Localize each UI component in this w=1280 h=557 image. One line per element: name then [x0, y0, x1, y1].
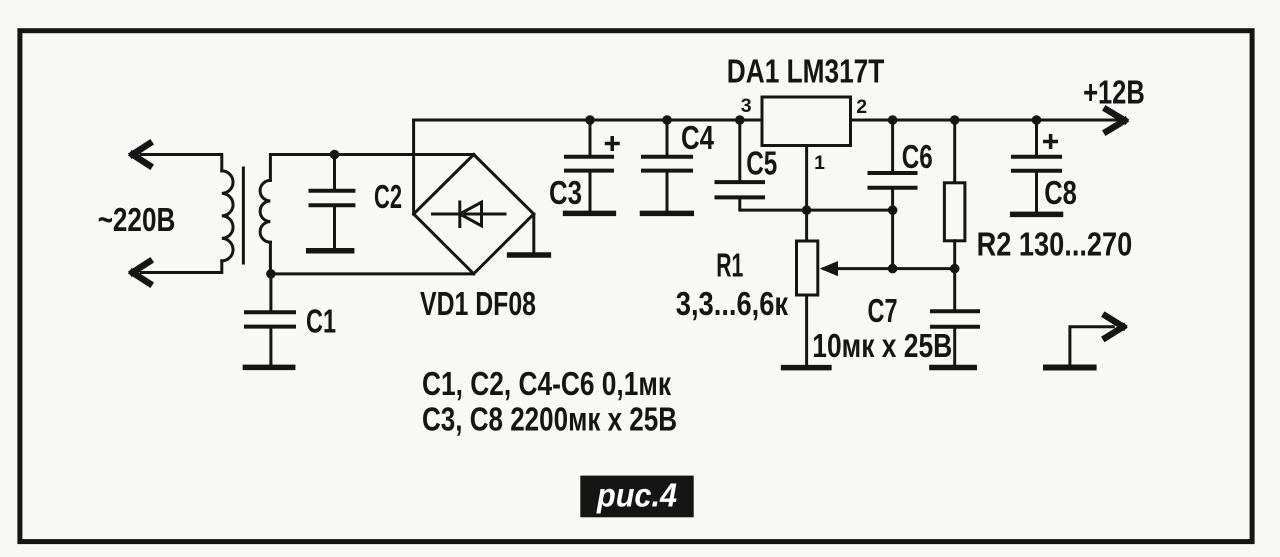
ground R1 [784, 365, 829, 371]
node C3 [585, 115, 595, 125]
svg-text:3: 3 [741, 95, 752, 117]
resistor R2 [953, 120, 956, 183]
wire secondary top lead [270, 155, 473, 181]
top rail [414, 119, 762, 122]
resistor R1 (trimmer) [805, 210, 808, 241]
regulator DA1 box [762, 97, 851, 146]
svg-text:С7: С7 [868, 292, 898, 329]
ground bridge [510, 252, 549, 258]
node pin1 [802, 205, 812, 215]
capacitor C3 [589, 120, 592, 155]
svg-text:С8: С8 [1044, 174, 1077, 211]
input arrow bottom [133, 262, 150, 284]
svg-text:С2: С2 [374, 178, 402, 215]
wire secondary bottom lead [269, 242, 272, 274]
output arrow +12B [1107, 110, 1125, 132]
ground common output [1046, 365, 1094, 371]
node wiper C6 [888, 264, 898, 274]
node wiper R2 [950, 264, 960, 274]
svg-text:10мк х 25В: 10мк х 25В [812, 327, 952, 364]
plus sign C3 [607, 138, 619, 150]
transformer core [242, 168, 245, 263]
svg-text:DA1 LM317T: DA1 LM317T [727, 53, 885, 90]
junction dots [266, 115, 1041, 279]
node C4 [662, 115, 672, 125]
capacitor C5 [738, 120, 741, 181]
capacitor C8 [1035, 120, 1038, 155]
svg-text:VD1 DF08: VD1 DF08 [420, 285, 536, 322]
ground C1 [245, 365, 292, 371]
diode inside VD1 [433, 213, 506, 216]
svg-text:R1: R1 [716, 246, 743, 283]
common output symbol [1070, 327, 1113, 365]
wire primary bottom lead [141, 261, 222, 273]
svg-text:С1, С2, С4-С6 0,1мк: С1, С2, С4-С6 0,1мк [422, 365, 671, 402]
svg-text:С1: С1 [306, 303, 336, 340]
svg-text:3,3...6,6к: 3,3...6,6к [676, 285, 789, 322]
figure caption box [580, 476, 693, 518]
ground C7 [932, 365, 974, 371]
svg-text:С5: С5 [746, 145, 777, 182]
ground C4 [643, 211, 692, 217]
node C5/pin3 [735, 115, 745, 125]
svg-text:С3, С8 2200мк х 25В: С3, С8 2200мк х 25В [422, 401, 677, 438]
capacitor C1 [269, 274, 272, 311]
svg-text:рис.4: рис.4 [596, 477, 677, 514]
transformer T1 secondary winding [260, 180, 270, 242]
plus sign C8 [1045, 136, 1057, 148]
wire bridge minus to ground [532, 214, 535, 253]
svg-text:С6: С6 [902, 138, 933, 175]
wire primary top lead [141, 155, 222, 171]
ground C3 [566, 211, 614, 217]
pin 1 wire [805, 146, 808, 211]
ground C2 [309, 248, 352, 254]
wiper wire R1 [824, 267, 955, 270]
input arrow top [133, 144, 150, 166]
node C1/secondary [266, 269, 276, 279]
capacitor C2 [333, 155, 336, 190]
capacitor C6 [891, 120, 894, 172]
node C8 [1032, 115, 1042, 125]
node C6 top [888, 115, 898, 125]
node C2/secondary [330, 150, 340, 160]
svg-text:С3: С3 [549, 174, 582, 211]
transformer T1 primary winding [222, 171, 233, 261]
svg-text:С4: С4 [681, 119, 715, 156]
bridge rectifier VD1 [412, 120, 415, 214]
capacitor C4 [666, 120, 669, 155]
svg-text:2: 2 [856, 96, 867, 118]
svg-text:R2 130...270: R2 130...270 [977, 225, 1133, 262]
node R2 top [950, 115, 960, 125]
ground C8 [1013, 212, 1061, 218]
svg-text:~220В: ~220В [98, 201, 176, 238]
svg-text:+12В: +12В [1083, 74, 1145, 111]
wiper arrowhead [820, 261, 838, 276]
svg-text:1: 1 [814, 152, 825, 174]
capacitor C7 [932, 309, 978, 313]
wire lower rail to bridge [271, 272, 474, 275]
node C6 bottom [888, 205, 898, 215]
